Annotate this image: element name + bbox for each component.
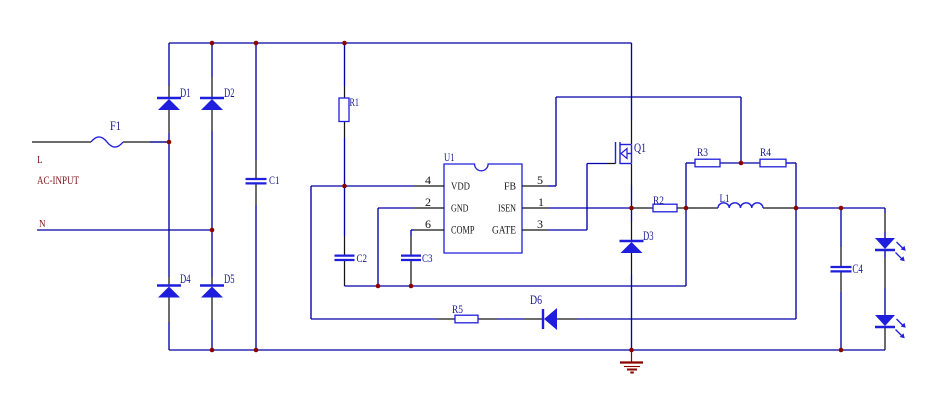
inductor L1 [718,191,763,208]
node C1 bottom [254,348,259,353]
svg-text:C2: C2 [357,251,368,265]
LED2 [875,315,906,338]
node ISEN-Q1 [629,206,634,211]
svg-text:D2: D2 [224,85,235,100]
svg-text:1: 1 [538,197,544,209]
capacitor C1 [246,173,280,187]
wire R5/D6 net [311,318,796,320]
ground [620,350,643,373]
pin 5 FB [504,175,548,193]
port label N [39,218,46,230]
svg-text:D4: D4 [180,271,191,286]
wire N input [37,229,212,231]
node bridge-L [167,140,172,145]
wire GND net [378,208,414,286]
node D5 bottom [210,348,215,353]
node C1 top [254,41,259,46]
wire C1 column [255,43,257,350]
node VDD-R1 [342,184,347,189]
wire Q1 source / D3 column [631,164,633,350]
svg-text:C3: C3 [422,251,433,265]
wire L input to fuse [32,141,91,143]
diode D3 [620,228,654,253]
svg-text:R2: R2 [653,193,664,207]
node R1 top [342,41,347,46]
svg-text:D1: D1 [180,85,191,100]
wire top rail [169,42,632,44]
resistor R5 [452,302,478,323]
port label AC-INPUT [37,173,80,187]
svg-text:C1: C1 [269,173,280,187]
diode D6 [530,293,557,330]
LED1 [875,238,906,261]
svg-text:Q1: Q1 [634,140,646,155]
wire R1/C2 column [344,43,346,286]
wire fuse to bridge node [123,141,169,143]
diode D1 [157,85,191,110]
node GND rail B [409,284,414,289]
svg-text:N: N [39,218,46,230]
wire Q1 drain [631,43,633,144]
pin 2 GND [414,197,469,215]
wire D2 column [211,43,213,350]
svg-text:R3: R3 [697,145,708,159]
wire GATE net [548,164,616,231]
pin 3 GATE [492,219,548,237]
wire LED column [884,213,886,350]
svg-text:D6: D6 [530,293,542,307]
wire D1 column [168,43,170,350]
resistor R3 [695,145,720,167]
op-amp U1 body [444,150,522,253]
svg-text:U1: U1 [444,150,455,164]
pin 4 VDD [414,175,470,193]
node D2 top [210,41,215,46]
svg-text:R5: R5 [452,302,463,316]
wire R4 right branch [786,163,796,319]
port label L [37,154,43,166]
capacitor C4 [831,262,864,276]
wire C4 column [840,208,842,350]
svg-text:FB: FB [504,181,516,193]
fuse F1 [91,118,123,147]
svg-text:GND: GND [451,203,469,215]
diode D5 [200,271,235,298]
wire FB net [548,97,741,186]
svg-text:2: 2 [425,197,431,209]
wire COMP net [411,230,414,286]
svg-text:C4: C4 [852,262,863,276]
svg-text:ISEN: ISEN [498,203,516,215]
resistor R1 [339,95,359,122]
diode D2 [200,85,235,110]
resistor R2 [653,193,677,212]
pin 6 COMP [414,219,475,237]
node C4 bottom [839,348,844,353]
node GND rail A [376,284,381,289]
svg-text:AC-INPUT: AC-INPUT [37,173,80,187]
transistor Q1 [616,140,647,164]
svg-text:D3: D3 [643,228,654,243]
wire R3-R4 node [720,162,760,164]
svg-text:F1: F1 [110,118,121,133]
wire R3 left branch [686,163,695,286]
svg-text:VDD: VDD [451,181,470,193]
wire bottom rail [169,349,885,351]
node C4 top [839,206,844,211]
svg-text:5: 5 [537,175,543,187]
diode D4 [157,271,191,298]
wire VDD net [311,186,414,319]
svg-text:COMP: COMP [451,225,475,237]
node ground rail [629,348,634,353]
capacitor C2 [335,251,368,265]
node R4-L1 [794,206,799,211]
svg-text:L: L [37,154,43,166]
svg-text:D5: D5 [224,271,235,286]
node N-D2 [210,228,215,233]
capacitor C3 [401,251,433,265]
svg-text:L1: L1 [720,191,730,205]
svg-text:4: 4 [425,175,431,187]
svg-text:R4: R4 [760,145,771,159]
pin 1 ISEN [498,197,548,215]
svg-text:R1: R1 [350,95,360,109]
wire ground rail y286 [345,285,687,287]
wire ISEN net [548,208,885,213]
svg-text:3: 3 [537,219,543,231]
resistor R4 [760,145,786,167]
node R2-R3 [684,206,689,211]
node R3-R4 [739,161,744,166]
svg-text:6: 6 [425,219,431,231]
svg-text:GATE: GATE [492,225,516,237]
